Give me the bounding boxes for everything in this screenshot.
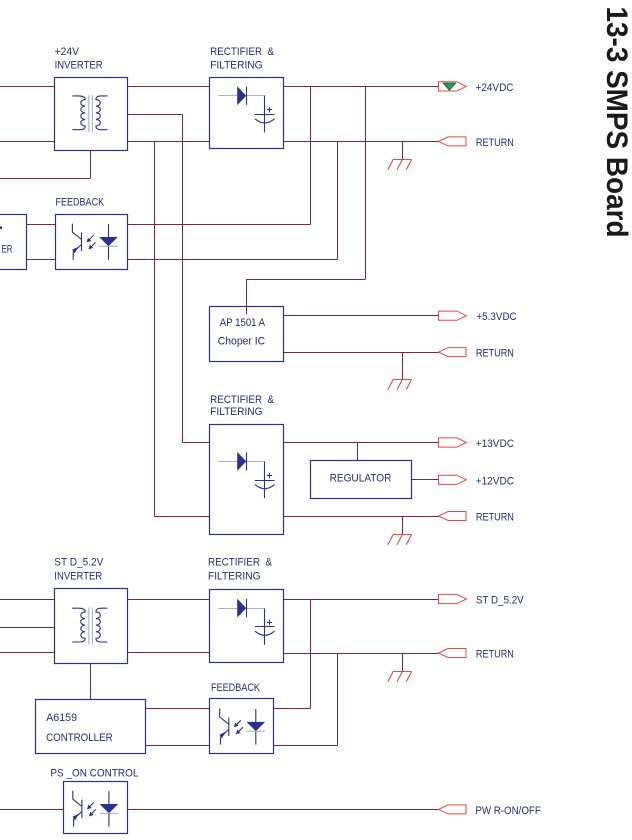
svg-text:RETURN: RETURN: [476, 649, 514, 661]
svg-text:FILTERING: FILTERING: [210, 406, 263, 418]
svg-text:A6159: A6159: [46, 712, 77, 724]
svg-text:INVERTER: INVERTER: [55, 60, 103, 72]
svg-text:RETURN: RETURN: [476, 137, 514, 149]
svg-text:REGULATOR: REGULATOR: [330, 473, 392, 485]
svg-text:+24VDC: +24VDC: [476, 82, 514, 94]
svg-text:13-3 SMPS Board: 13-3 SMPS Board: [600, 7, 632, 238]
svg-text:FEEDBACK: FEEDBACK: [56, 197, 105, 209]
svg-text:FILTERING: FILTERING: [208, 570, 261, 582]
svg-text:RETURN: RETURN: [476, 348, 514, 360]
svg-text:+13VDC: +13VDC: [476, 438, 514, 450]
svg-text:RETURN: RETURN: [476, 512, 514, 524]
svg-text:ST D_5.2V: ST D_5.2V: [476, 595, 524, 607]
svg-text:+12VDC: +12VDC: [476, 475, 514, 487]
svg-text:PS _ON CONTROL: PS _ON CONTROL: [50, 767, 138, 779]
svg-text:ER: ER: [2, 244, 13, 256]
svg-text:AP 1501 A: AP 1501 A: [220, 317, 266, 329]
svg-text:RECTIFIER &: RECTIFIER &: [210, 394, 274, 406]
svg-text:RECTIFIER &: RECTIFIER &: [210, 46, 274, 58]
svg-text:+24V: +24V: [55, 46, 80, 58]
svg-text:ST D_5.2V: ST D_5.2V: [54, 557, 104, 569]
svg-text:+5.3VDC: +5.3VDC: [476, 311, 516, 323]
svg-text:CONTROLLER: CONTROLLER: [46, 732, 113, 744]
svg-text:INVERTER: INVERTER: [54, 570, 102, 582]
svg-text:FEEDBACK: FEEDBACK: [211, 682, 260, 694]
svg-text:Choper IC: Choper IC: [218, 336, 266, 348]
svg-text:PW R-ON/OFF: PW R-ON/OFF: [475, 805, 540, 817]
svg-text:RECTIFIER &: RECTIFIER &: [208, 557, 272, 569]
svg-text:FILTERING: FILTERING: [210, 60, 263, 72]
